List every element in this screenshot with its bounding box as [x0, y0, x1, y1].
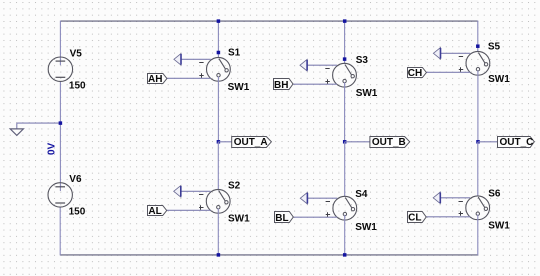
wire OUT_B to S4	[344, 142, 346, 197]
pin square S3 top	[343, 57, 347, 61]
switch S5	[466, 51, 490, 75]
flag CL	[408, 212, 427, 223]
svg-text:CL: CL	[408, 213, 421, 224]
junction top rail / phase A	[217, 19, 221, 23]
flag OUT_B	[370, 137, 410, 148]
wire S6 to bottom rail	[477, 215, 479, 256]
svg-text:BH: BH	[274, 80, 288, 91]
svg-text:S2: S2	[228, 181, 241, 192]
net label 0V	[47, 142, 58, 155]
junction bottom rail / phase A	[217, 253, 221, 257]
wire S3 to OUT_B	[344, 82, 346, 142]
switch S3	[333, 63, 357, 87]
svg-text:AH: AH	[148, 74, 162, 85]
wire top rail to S3	[344, 21, 346, 64]
wire top rail to S1	[217, 21, 219, 58]
svg-text:S1: S1	[228, 47, 241, 58]
switch S4	[333, 196, 357, 220]
svg-text:SW1: SW1	[355, 222, 377, 233]
wire OUT_B stub	[345, 141, 370, 143]
wire OUT_A to S2	[217, 142, 219, 191]
flag CH	[408, 68, 427, 78]
svg-text:OUT_A: OUT_A	[234, 137, 268, 148]
wire S4 to bottom rail	[344, 215, 346, 256]
junction OUT_A	[217, 140, 221, 144]
wire ground stub	[17, 122, 61, 124]
wire V5 to ground node	[59, 81, 61, 191]
flag OUT_C	[498, 137, 535, 148]
wire V6 to bottom rail	[59, 207, 61, 255]
flag AL	[148, 206, 167, 216]
flag BH	[274, 79, 294, 90]
switch S2	[206, 189, 230, 213]
switch S6	[466, 196, 490, 220]
pin square S1 top	[217, 51, 221, 55]
svg-text:150: 150	[69, 206, 86, 217]
wire OUT_C stub	[478, 141, 498, 143]
junction top rail / phase B	[343, 19, 347, 23]
flag BL	[275, 212, 294, 223]
svg-text:0V: 0V	[47, 142, 58, 155]
svg-text:CH: CH	[408, 68, 422, 79]
wire S1 to OUT_A	[217, 77, 219, 143]
flag OUT_A	[232, 137, 272, 148]
svg-text:SW1: SW1	[356, 88, 378, 99]
junction ground node	[59, 121, 63, 125]
svg-text:SW1: SW1	[228, 82, 250, 93]
voltage source V6	[48, 183, 72, 207]
ground	[10, 129, 23, 136]
junction bottom rail / phase B	[343, 253, 347, 257]
voltage source V5	[48, 57, 72, 81]
wire S2 to bottom rail	[217, 209, 219, 256]
svg-text:S4: S4	[355, 189, 368, 200]
svg-text:150: 150	[69, 81, 86, 92]
wire OUT_C to S6	[477, 142, 479, 197]
pin square S5 top	[476, 44, 480, 48]
flag AH	[148, 74, 167, 84]
svg-text:SW1: SW1	[488, 74, 510, 85]
svg-text:SW1: SW1	[228, 213, 250, 224]
junction OUT_B	[343, 140, 347, 144]
svg-text:OUT_C: OUT_C	[500, 137, 534, 148]
junction OUT_C	[476, 140, 480, 144]
wire OUT_A stub	[218, 141, 231, 143]
svg-text:SW1: SW1	[488, 220, 510, 231]
wire S5 to OUT_C	[477, 71, 479, 143]
wire top rail to S5	[477, 21, 479, 52]
svg-text:S3: S3	[356, 55, 369, 66]
svg-text:BL: BL	[275, 213, 288, 224]
svg-text:V6: V6	[69, 174, 82, 185]
wire V5 top feed	[59, 21, 61, 66]
svg-text:OUT_B: OUT_B	[372, 137, 406, 148]
svg-text:V5: V5	[70, 48, 83, 59]
switch S1	[207, 57, 231, 81]
svg-text:S5: S5	[488, 42, 501, 53]
wire bottom rail	[60, 254, 478, 256]
wire top rail	[60, 20, 477, 22]
svg-text:AL: AL	[148, 206, 161, 217]
svg-text:S6: S6	[488, 189, 501, 200]
